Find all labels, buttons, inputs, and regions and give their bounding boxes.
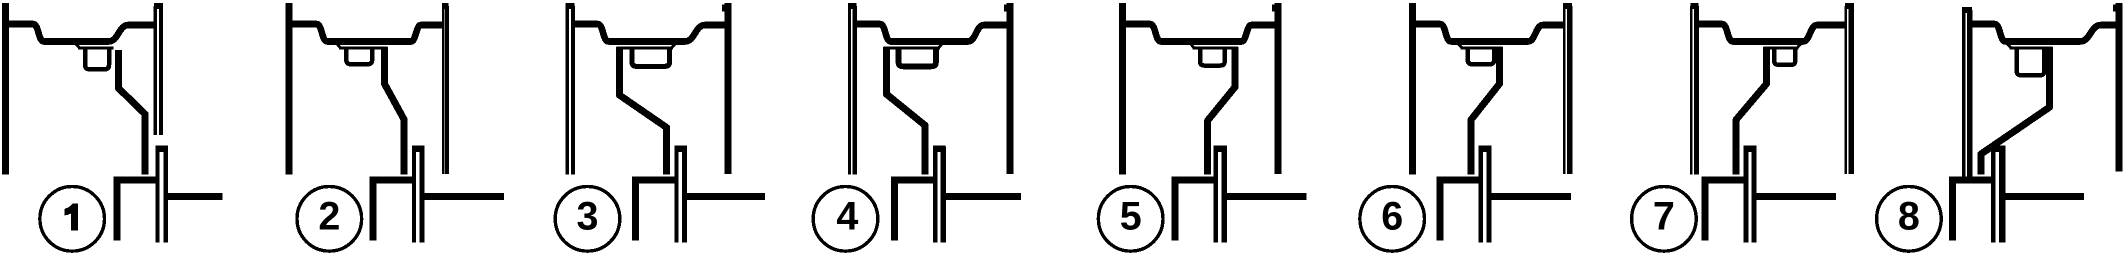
well hump plate cell 5 — [1193, 47, 1238, 50]
hub mounting legs cell 1 — [155, 147, 159, 243]
valve/pilot box cell 5 — [1200, 48, 1225, 66]
svg-text:6: 6 — [1381, 195, 1403, 239]
svg-text:5: 5 — [1120, 195, 1142, 239]
wheel rim cross-section 5 — [1098, 3, 1306, 251]
hub cap cell 8 — [1991, 146, 2005, 152]
label circle 1 — [40, 187, 105, 252]
svg-text:8: 8 — [1898, 195, 1920, 239]
plate end chamfer cell 2 — [337, 44, 341, 49]
valve/pilot box cell 2 — [346, 48, 372, 64]
rim barrel profile cell 6 — [1413, 24, 1564, 42]
label number 1 — [65, 204, 78, 231]
hub mounting legs cell 6 — [1479, 147, 1484, 243]
rim barrel profile cell 7 — [1696, 24, 1846, 42]
hub mounting legs cell 8 — [1991, 147, 1996, 243]
well hump plate cell 3 — [616, 47, 673, 50]
flange tip lip cell 3 — [722, 5, 725, 12]
valve/pilot box cell 4 — [899, 48, 936, 66]
rim outer flange right cell 3 — [725, 3, 732, 174]
rim barrel profile cell 5 — [1123, 24, 1278, 42]
svg-text:4: 4 — [836, 195, 858, 239]
well hump plate cell 1 — [78, 47, 114, 50]
rim outer flange left (double wall) cell 8 — [1962, 10, 1966, 176]
mounting face bracket cell 6 — [1440, 180, 1479, 240]
valve/pilot box cell 6 — [1468, 48, 1494, 64]
disc spoke line cell 7 — [1736, 47, 1766, 175]
rim barrel profile cell 4 — [855, 24, 1010, 42]
plate end chamfer cell 1 — [76, 44, 80, 49]
rim outer flange right cell 8 — [2116, 3, 2123, 172]
valve/pilot box cell 3 — [632, 48, 670, 66]
hub axis line cell 8 — [2004, 193, 2084, 200]
wheel rim cross-section 8 — [1877, 3, 2119, 251]
plate end chamfer cell 3 — [672, 44, 676, 49]
hub axis line cell 7 — [1755, 193, 1836, 200]
plate end chamfer cell 5 — [1190, 44, 1194, 49]
hub mounting legs cell 4 — [933, 147, 938, 243]
rim outer flange left cell 5 — [1119, 3, 1126, 175]
hub mounting legs cell 7 — [1743, 147, 1748, 243]
well hump plate cell 6 — [1461, 47, 1503, 50]
mounting face bracket cell 8 — [1953, 180, 1992, 240]
valve/pilot box cell 7 — [1774, 48, 1795, 65]
label circle 2 — [297, 187, 362, 252]
hub cap cell 7 — [1744, 146, 1757, 152]
hub cap cell 5 — [1214, 146, 1227, 152]
valve/pilot box cell 1 — [85, 48, 109, 69]
label circle 7 — [1632, 187, 1697, 252]
hub axis line cell 3 — [686, 193, 765, 200]
hub cap cell 4 — [933, 146, 946, 152]
rim outer flange right (double wall) cell 1 — [153, 6, 157, 135]
valve/pilot box cell 8 — [2017, 48, 2044, 75]
rim outer flange left (double wall) cell 4 — [848, 6, 851, 175]
label circle 5 — [1098, 187, 1163, 252]
flange tip lip cell 4 — [1004, 5, 1007, 12]
disc spoke line cell 2 — [385, 47, 405, 175]
rim barrel profile cell 8 — [1970, 24, 2119, 42]
label circle 4 — [813, 187, 878, 252]
plate end chamfer cell 6 — [1458, 44, 1462, 49]
flange tip lip cell 5 — [1272, 5, 1275, 12]
svg-text:2: 2 — [318, 195, 340, 239]
hub cap cell 6 — [1479, 146, 1492, 152]
wheel rim cross-section 3 — [555, 3, 765, 251]
plate end chamfer cell 7 — [1797, 44, 1801, 49]
hub axis line cell 6 — [1490, 193, 1571, 200]
label circle 3 — [555, 187, 620, 252]
rim outer flange right (double wall) cell 7 — [1845, 6, 1848, 174]
disc spoke line cell 4 — [886, 47, 925, 175]
rim outer flange right cell 4 — [1007, 3, 1014, 174]
plate end chamfer cell 4 — [938, 44, 942, 49]
well hump plate cell 2 — [339, 47, 387, 50]
rim outer flange left cell 2 — [285, 3, 292, 175]
hub axis line cell 1 — [167, 193, 223, 200]
hub cap cell 1 — [155, 146, 168, 152]
label circle 6 — [1360, 187, 1425, 252]
label circle 8 — [1877, 187, 1942, 252]
wheel rim cross-section 2 — [289, 3, 504, 251]
mounting face bracket cell 3 — [636, 180, 675, 240]
rim outer flange left cell 6 — [1409, 3, 1416, 175]
wheel rim cross-section 1 — [6, 3, 223, 251]
hub axis line cell 4 — [945, 193, 1021, 200]
disc spoke line cell 5 — [1208, 47, 1235, 175]
rim outer flange left (double wall) cell 3 — [565, 6, 569, 175]
hub cap cell 3 — [674, 146, 687, 152]
rim outer flange left cell 1 — [2, 3, 9, 175]
mounting face bracket cell 4 — [894, 180, 933, 240]
disc spoke line cell 6 — [1471, 47, 1499, 175]
well hump plate cell 4 — [883, 47, 940, 50]
hub mounting legs cell 2 — [412, 147, 416, 243]
mounting face bracket cell 2 — [373, 180, 412, 240]
mounting face bracket cell 1 — [117, 180, 156, 240]
mounting face bracket cell 5 — [1175, 180, 1214, 240]
flange tip lip cell 8 — [2113, 5, 2116, 12]
disc spoke line cell 1 — [118, 50, 145, 175]
well hump plate cell 8 — [2010, 47, 2053, 50]
hub axis line cell 2 — [424, 193, 504, 200]
rim barrel profile cell 3 — [573, 24, 728, 42]
well hump plate cell 7 — [1764, 47, 1799, 50]
wheel rim cross-section 4 — [813, 3, 1021, 251]
disc spoke line cell 3 — [619, 47, 666, 175]
rim outer flange left (double wall) cell 7 — [1690, 6, 1693, 175]
hub mounting legs cell 3 — [674, 147, 678, 243]
svg-text:3: 3 — [577, 195, 599, 239]
plate end chamfer cell 8 — [2007, 44, 2011, 49]
hub cap cell 2 — [412, 146, 425, 152]
rim outer flange right cell 5 — [1274, 3, 1281, 174]
wheel rim cross-section 6 — [1360, 3, 1572, 251]
mounting face bracket cell 7 — [1705, 180, 1743, 240]
rim barrel profile cell 1 — [6, 24, 156, 42]
wheel rim cross-section 7 — [1632, 6, 1854, 251]
disc spoke line cell 8 — [1981, 47, 2050, 175]
svg-text:7: 7 — [1653, 195, 1675, 239]
rim outer flange right (double wall) cell 2 — [442, 6, 444, 174]
hub axis line cell 5 — [1226, 193, 1307, 200]
rim barrel profile cell 2 — [289, 24, 443, 42]
hub mounting legs cell 5 — [1214, 147, 1218, 243]
rim outer flange right (double wall) cell 6 — [1563, 6, 1566, 174]
